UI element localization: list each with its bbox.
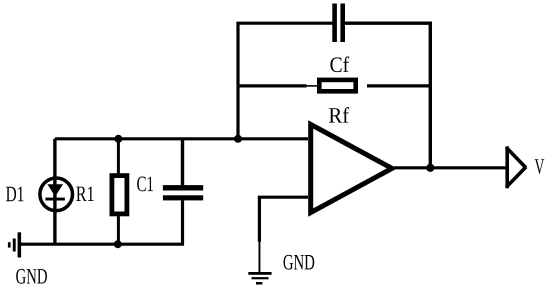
ground (op-amp non-inverting input): [248, 242, 271, 285]
wire: op-amp output run to terminal: [394, 166, 506, 169]
capacitor Cf: [332, 4, 345, 43]
ground (left rail, rotated earth symbol): [8, 232, 21, 257]
label Rf: [329, 107, 349, 122]
wire: top feedback run (left segment) with left vertical drop to summing node: [238, 23, 333, 139]
label GND (left): [16, 269, 47, 284]
photodiode D1: [40, 178, 73, 211]
label R1: [76, 186, 93, 201]
wire: R1 top lead: [117, 139, 120, 175]
wire: top feedback run (right segment) with right vertical drop to output node: [345, 23, 430, 168]
wire: inverting input net (summing node rail): [55, 137, 308, 140]
output terminal V: [506, 146, 526, 188]
wire: Rf feedback branch, right piece: [367, 84, 430, 87]
label GND (op-amp input): [284, 255, 315, 270]
wire: Rf feedback branch, left piece with thin lead: [238, 84, 318, 87]
junction: R1 bottom: [114, 240, 122, 248]
wire: R1 bottom lead: [117, 214, 120, 244]
label C1: [137, 177, 153, 192]
wire: photodiode D1 branch vertical: [53, 139, 56, 244]
op-amp U1: [311, 124, 392, 212]
junction: feedback joins output: [426, 164, 434, 172]
label D1: [6, 187, 23, 202]
wire: C1 top lead: [181, 139, 184, 185]
wire: non-inverting input to ground: [259, 197, 308, 242]
resistor R1: [112, 176, 127, 214]
wire: C1 bottom lead and ground rail: [21, 200, 183, 244]
junction: R1 top: [114, 135, 122, 143]
resistor Rf: [319, 80, 355, 91]
junction: feedback joins inverting input: [234, 135, 242, 143]
capacitor C1: [163, 185, 203, 200]
label V: [535, 159, 545, 174]
label Cf: [330, 56, 349, 72]
